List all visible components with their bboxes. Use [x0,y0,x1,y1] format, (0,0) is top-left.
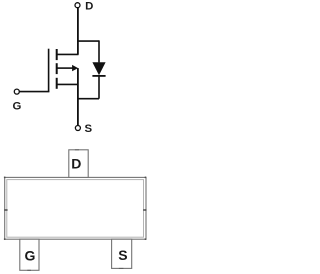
Q1 drain stub [57,53,79,55]
corner marker bottom-left [4,238,6,240]
pin tab D center tick [75,149,79,151]
svg-text:G: G [24,248,35,264]
terminal G [14,89,19,94]
corner marker top-left [4,177,6,179]
pin tab S [112,239,132,268]
body diode D1 [92,40,105,98]
Q1 channel segment (body) [56,63,58,74]
Q1 channel segment (source) [56,78,58,89]
svg-text:D: D [85,1,93,13]
wire: gate lead [19,91,49,93]
pin tab D [69,150,88,178]
svg-text:G: G [12,101,21,113]
svg-text:S: S [84,123,92,135]
corner marker top-right [145,177,147,179]
pin tab S center tick [119,267,124,269]
wire: source vertical [77,68,79,125]
terminal D [75,3,80,8]
package body inner outline [7,180,144,238]
pin tab G [20,239,39,270]
Q1 source stub [57,83,79,85]
Q1 body arrow [57,65,78,71]
transistor Q1 gate bar [48,49,50,92]
wire: diode branch bottom return [78,98,99,100]
wire: diode branch top [78,40,99,42]
wire: drain vertical [77,8,79,55]
svg-text:D: D [71,156,81,172]
Q1 channel segment (drain) [56,49,58,60]
package body outer outline [5,177,146,239]
right edge center tick [143,209,146,211]
terminal S [75,126,80,131]
svg-text:S: S [118,247,127,263]
corner marker bottom-right [145,238,147,240]
pin tab G center tick [27,269,31,271]
left edge center tick [4,209,7,211]
